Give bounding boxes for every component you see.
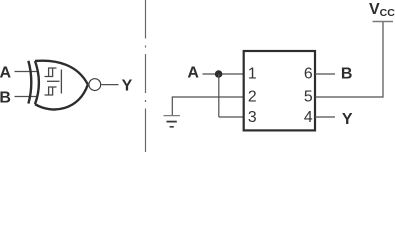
- VCC rail bar: [373, 21, 394, 23]
- svg-text:6: 6: [304, 66, 313, 83]
- interior vertical line: [60, 70, 62, 94]
- wire A input: [15, 71, 39, 73]
- svg-text:Y: Y: [342, 111, 353, 128]
- interior horizontal line: [47, 80, 60, 82]
- svg-text:B: B: [341, 66, 353, 83]
- wire pin 2 to ground: [172, 97, 243, 116]
- wire junction to pin 3 (vertical): [218, 74, 220, 117]
- svg-text:B: B: [0, 89, 11, 106]
- svg-text:1: 1: [248, 66, 257, 83]
- dash-dot separator line: [145, 0, 147, 152]
- output inversion bubble: [89, 79, 101, 91]
- svg-text:A: A: [187, 65, 199, 82]
- gate U1 XNOR body: [35, 61, 88, 110]
- svg-text:3: 3: [248, 109, 257, 126]
- ground: [164, 115, 180, 117]
- package U1 outline: [244, 51, 315, 130]
- hysteresis symbol (input A): [45, 68, 57, 77]
- gate U1 XNOR input arc (extra XOR curve): [28, 61, 31, 104]
- svg-text:Y: Y: [122, 77, 133, 94]
- svg-text:2: 2: [248, 89, 257, 106]
- wire pin 6 to B: [315, 73, 335, 75]
- wire A to pin 1: [203, 73, 244, 75]
- svg-text:4: 4: [304, 109, 313, 126]
- wire Y output: [101, 84, 118, 86]
- wire to pin 3 (horizontal): [219, 116, 244, 118]
- wire B input: [15, 96, 39, 98]
- svg-text:5: 5: [304, 89, 313, 106]
- wire pin 4 to Y: [315, 116, 335, 118]
- svg-text:A: A: [0, 65, 12, 82]
- junction dot on A wire: [215, 70, 223, 78]
- hysteresis symbol (input B): [45, 87, 57, 95]
- wire pin 5 to VCC: [315, 22, 383, 98]
